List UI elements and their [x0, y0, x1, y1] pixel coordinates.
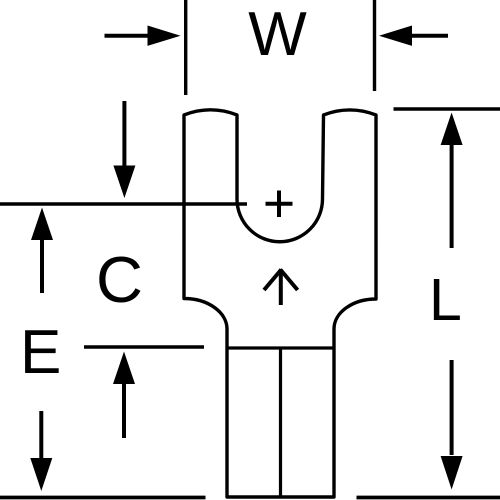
W dimension arrow left [105, 26, 181, 46]
barrel top edge [227, 346, 334, 349]
L top extension line [394, 107, 500, 110]
E dimension down arrow [30, 411, 52, 491]
svg-text:W: W [248, 0, 307, 69]
E dimension up arrow [31, 208, 53, 294]
L dimension down arrow [441, 360, 463, 490]
svg-text:L: L [429, 267, 462, 333]
barrel seam center line [279, 348, 282, 497]
W extension line right [373, 0, 376, 91]
W dimension arrow right [379, 26, 448, 46]
fork terminal outline [184, 110, 376, 497]
bottom baseline right segment [357, 496, 500, 500]
slot center extension line [0, 202, 247, 205]
L dimension up arrow [441, 113, 463, 249]
slot center cross mark [266, 191, 293, 218]
wire-entry up arrow glyph inside body [264, 270, 298, 306]
C dimension down arrow [113, 101, 135, 198]
svg-text:E: E [20, 318, 61, 387]
svg-text:C: C [96, 243, 143, 316]
W extension line left [184, 0, 187, 95]
C dimension up arrow [113, 352, 135, 439]
barrel top extension line (E) [84, 345, 204, 348]
bottom baseline left segment [0, 496, 206, 500]
